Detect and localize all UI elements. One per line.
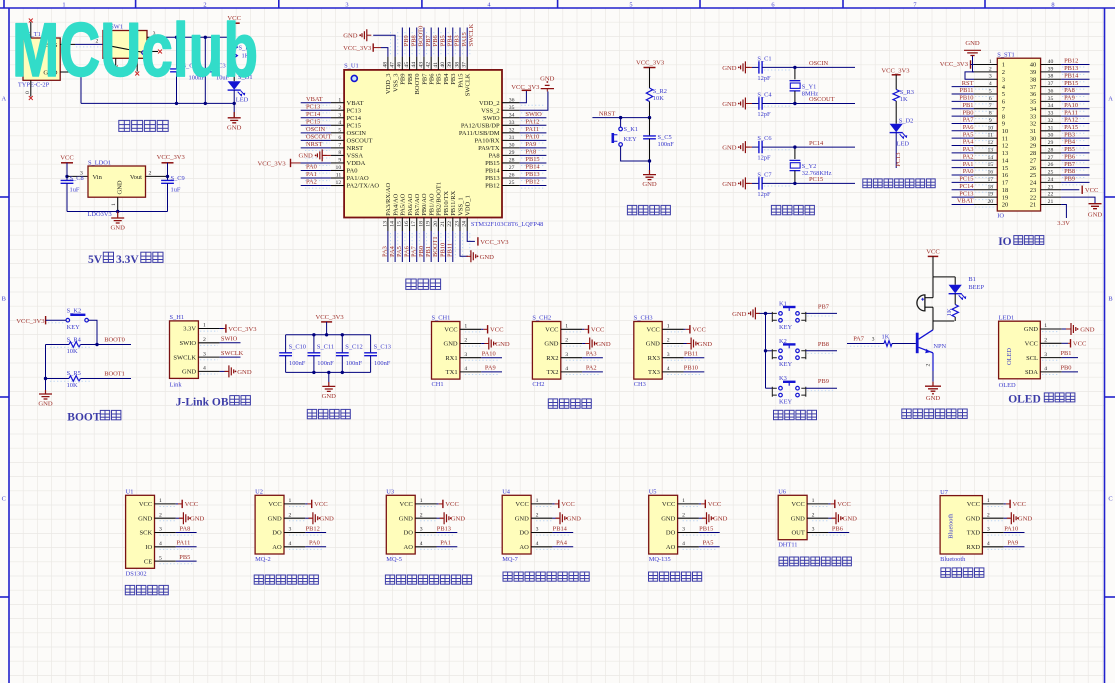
svg-text:26: 26 [1048, 162, 1054, 168]
svg-text:PB10/TX: PB10/TX [443, 191, 450, 216]
wire net PB5 to U1 pin 41 [437, 28, 439, 57]
svg-text:GND: GND [722, 145, 737, 152]
svg-text:Vout: Vout [130, 174, 142, 181]
junction LDO ground [116, 210, 119, 213]
pin 12 PA2/TX/AO of U1 [331, 185, 344, 187]
wire net PB14 from ST1 pin 38 [1061, 78, 1089, 80]
pin 3 of S_SW1 [147, 36, 163, 38]
svg-text:33: 33 [509, 120, 515, 126]
svg-text:37: 37 [462, 62, 468, 68]
svg-text:17: 17 [1002, 180, 1009, 187]
svg-text:PA1: PA1 [306, 171, 317, 178]
wire net PA7 to ST1 pin 9 [952, 122, 974, 124]
svg-text:3.3V: 3.3V [1057, 220, 1070, 227]
pin 1 VCC of U2 with power VCC [284, 503, 305, 505]
svg-text:21: 21 [1048, 199, 1054, 205]
svg-text:PB15: PB15 [699, 525, 713, 532]
svg-text:PA9: PA9 [525, 141, 536, 148]
svg-text:PC15: PC15 [306, 118, 320, 125]
pin 3 of U2 net PB12 [284, 532, 305, 534]
wire net PA5 to ST1 pin 11 [952, 137, 974, 139]
svg-text:PB9: PB9 [400, 74, 407, 85]
title reset 复位电路 [627, 205, 636, 214]
svg-text:PB0: PB0 [962, 109, 973, 116]
svg-text:2: 2 [812, 512, 815, 518]
svg-text:PA11: PA11 [525, 126, 539, 133]
svg-text:BOOT: BOOT [67, 411, 101, 423]
svg-text:15: 15 [1002, 165, 1009, 172]
wire net PB10 to ST1 pin 6 [952, 100, 974, 102]
svg-text:AO: AO [272, 544, 282, 551]
svg-text:43: 43 [418, 62, 424, 68]
svg-text:PB5: PB5 [436, 74, 443, 85]
svg-text:VCC: VCC [314, 501, 328, 508]
power VCC_3V3 at H1 pin1 [220, 328, 224, 330]
wire D1 cathode to GND [233, 90, 235, 112]
svg-text:100nF: 100nF [658, 141, 675, 148]
svg-text:8: 8 [989, 111, 992, 117]
svg-text:3: 3 [872, 336, 875, 342]
svg-text:A: A [1108, 96, 1113, 103]
svg-text:GND: GND [480, 254, 495, 261]
capacitor S_C10 100nF [285, 335, 287, 353]
pin 3 of S_CH2 net PA3 [561, 357, 582, 359]
svg-text:28: 28 [1048, 147, 1054, 153]
svg-text:VCC: VCC [591, 327, 605, 334]
svg-text:S_R5: S_R5 [67, 370, 81, 377]
pin 23 VSS_1 of U1 bottom [459, 218, 461, 232]
pin 1 3.3V of S_H1 [198, 328, 219, 330]
svg-text:18: 18 [418, 221, 424, 227]
svg-text:18: 18 [987, 184, 993, 190]
svg-text:PA3: PA3 [963, 146, 974, 153]
pin 28 of S_ST1 right [1041, 152, 1062, 154]
svg-text:VDD_3: VDD_3 [385, 74, 392, 95]
wire net PA3 to ST1 pin 13 [952, 152, 974, 154]
svg-text:OSCOUT: OSCOUT [347, 137, 373, 144]
wire net PB3 to U1 pin 39 [452, 28, 454, 57]
pin 39 PB3 of U1 top [452, 57, 454, 70]
svg-text:2: 2 [987, 512, 990, 518]
svg-text:GND: GND [722, 181, 737, 188]
svg-text:4: 4 [987, 541, 990, 547]
svg-text:VCC_3V3: VCC_3V3 [940, 61, 969, 68]
svg-text:U4: U4 [502, 489, 511, 496]
title benzene 苯检测模块 [649, 572, 658, 581]
pin 1 VCC of S_CH2 with power VCC [561, 328, 582, 330]
svg-text:47: 47 [390, 62, 396, 68]
wire net PB10 from U1 pin 21 [445, 231, 447, 262]
svg-text:40: 40 [1048, 59, 1054, 65]
title bluetooth 蓝牙模块 [941, 568, 950, 577]
wire net BOOT0 to U1 pin 44 [416, 28, 418, 57]
svg-text:Vin: Vin [93, 174, 103, 181]
pin 3 PC14 of U1 [331, 117, 344, 119]
connector S_T1 TYPE-C-2P [23, 38, 60, 80]
svg-text:6: 6 [989, 96, 992, 102]
wire rail to K3 [766, 387, 773, 389]
capacitor S_C9 1uF [167, 176, 169, 180]
pin 43 PB7 of U1 top [423, 57, 425, 70]
svg-text:PA12: PA12 [525, 118, 539, 125]
pin 9 of S_ST1 [974, 122, 997, 124]
pin 23 of S_ST1 right [1041, 189, 1062, 191]
svg-text:GND: GND [237, 369, 252, 376]
svg-text:20: 20 [987, 199, 993, 205]
svg-text:VCC: VCC [1073, 341, 1087, 348]
svg-text:4: 4 [536, 541, 539, 547]
pin 7 NRST of U1 [331, 147, 344, 149]
svg-text:PA10/RX: PA10/RX [475, 137, 500, 144]
svg-text:VCC_3V3: VCC_3V3 [228, 326, 257, 333]
svg-text:2: 2 [159, 512, 162, 518]
wire emitter [932, 353, 934, 371]
pin 15 of S_ST1 [974, 167, 997, 169]
svg-text:VCC: VCC [139, 501, 152, 508]
svg-text:Bluetooth: Bluetooth [948, 513, 955, 539]
wire net NRST to U1 pin 7 [301, 147, 331, 149]
svg-text:8: 8 [1002, 113, 1005, 120]
svg-text:RX1: RX1 [445, 355, 457, 362]
LED B1 BEEP [954, 277, 956, 285]
wire net PA7 from U1 pin 17 [416, 231, 418, 262]
pin 2 GND of U6 with ground [807, 517, 828, 519]
wire net PA12 from ST1 pin 32 [1061, 122, 1089, 124]
svg-text:PB7: PB7 [1064, 161, 1076, 168]
svg-text:S_U1: S_U1 [344, 63, 359, 70]
svg-text:PA5: PA5 [963, 131, 974, 138]
svg-text:GND: GND [713, 516, 728, 523]
svg-text:GND: GND [926, 395, 941, 402]
pin 2 GND of U1 with ground [155, 517, 176, 519]
wire net PA4 from U1 pin 14 [394, 231, 396, 262]
svg-text:100nF: 100nF [317, 360, 334, 367]
svg-text:39: 39 [447, 62, 453, 68]
svg-text:S_C7: S_C7 [757, 172, 772, 179]
svg-text:PC13: PC13 [347, 107, 361, 114]
svg-text:PC14: PC14 [809, 140, 824, 147]
svg-text:22: 22 [1030, 194, 1037, 201]
svg-text:19: 19 [1002, 194, 1009, 201]
svg-text:KEY: KEY [624, 136, 638, 143]
junction OSCIN at Y1 [793, 66, 796, 69]
svg-text:VBAT: VBAT [347, 100, 364, 107]
svg-text:PB8: PB8 [407, 74, 414, 85]
pin 33 PA12/USB/DP of U1 [502, 124, 520, 126]
svg-text:GND: GND [182, 369, 196, 376]
svg-text:TX1: TX1 [446, 369, 458, 376]
connector S_CH1 CH1 body [432, 322, 460, 380]
svg-text:GND: GND [843, 516, 858, 523]
pin 4 GND of S_H1 [198, 370, 219, 372]
pin 20 PB2/BOOT1 of U1 bottom [437, 218, 439, 232]
svg-text:TX3: TX3 [648, 369, 660, 376]
svg-text:2: 2 [1002, 69, 1005, 76]
wire net PB9 from ST1 pin 24 [1061, 181, 1089, 183]
svg-text:8: 8 [338, 150, 341, 156]
svg-text:12pF: 12pF [757, 75, 771, 82]
wire net PB15 from ST1 pin 37 [1061, 86, 1089, 88]
svg-text:32: 32 [1048, 118, 1054, 124]
wire filter top rail [286, 334, 371, 336]
pin 29 of S_ST1 right [1041, 145, 1062, 147]
svg-text:VSS_1: VSS_1 [457, 197, 464, 215]
capacitor S_C5 100nF [649, 118, 651, 136]
wire net PA3 from U1 pin 13 [387, 231, 389, 262]
svg-text:PA3: PA3 [586, 351, 597, 358]
pin 28 PB15 of U1 [502, 162, 520, 164]
svg-text:NRST: NRST [599, 110, 615, 117]
svg-text:32: 32 [509, 127, 515, 133]
svg-text:AO: AO [519, 544, 529, 551]
pin 2 GND of U4 with ground [531, 517, 552, 519]
display LED1 OLED body [999, 321, 1041, 379]
svg-text:2: 2 [203, 337, 206, 343]
svg-text:7: 7 [338, 142, 341, 148]
svg-text:GND: GND [646, 341, 660, 348]
svg-text:S_C10: S_C10 [289, 343, 306, 350]
svg-text:PA8: PA8 [525, 149, 536, 156]
svg-text:S_D2: S_D2 [899, 118, 914, 125]
svg-text:DO: DO [666, 530, 676, 537]
junction NRST at R2 [648, 116, 651, 119]
svg-text:VCC_3V3: VCC_3V3 [343, 45, 372, 52]
svg-text:GND: GND [698, 341, 713, 348]
pin 3 of U6 net PB6 [807, 532, 828, 534]
wire net PB4 from ST1 pin 29 [1061, 145, 1089, 147]
pin 5 OSCIN of U1 [331, 132, 344, 134]
svg-text:VCC: VCC [708, 501, 722, 508]
svg-text:GND: GND [722, 101, 737, 108]
svg-text:PA7: PA7 [853, 336, 865, 343]
svg-text:BEEP: BEEP [968, 284, 984, 291]
svg-text:PB10: PB10 [959, 95, 973, 102]
pin 10 of S_ST1 [974, 130, 997, 132]
wire net PA2 to ST1 pin 14 [952, 159, 974, 161]
svg-text:17: 17 [987, 177, 993, 183]
svg-text:PB14: PB14 [1064, 72, 1079, 79]
pin 3 of U7 net PA10 [982, 532, 1003, 534]
title crystal 晶振电路 [771, 205, 780, 214]
svg-text:OSCIN: OSCIN [347, 130, 367, 137]
pin 0 bottom of S_T1 [30, 80, 32, 96]
resistor S_R1 1K [233, 37, 235, 45]
junction GND rail at C3 [204, 102, 207, 105]
svg-text:GND: GND [299, 153, 314, 160]
svg-text:25: 25 [1048, 170, 1054, 176]
pin 2 of S_LDO1 [146, 175, 168, 177]
svg-text:KEY: KEY [779, 399, 793, 406]
wire VCC rail top [163, 36, 234, 38]
svg-text:35: 35 [1048, 96, 1054, 102]
svg-text:10: 10 [987, 125, 993, 131]
pin 16 PA6/AO of U1 bottom [409, 218, 411, 232]
svg-text:29: 29 [1030, 143, 1037, 150]
svg-text:GND: GND [399, 515, 413, 522]
svg-text:5V: 5V [88, 254, 103, 266]
svg-text:4: 4 [420, 541, 423, 547]
svg-text:PB7: PB7 [818, 303, 830, 310]
net 3.3V at ST1 pin21 [1061, 204, 1066, 218]
wire net PA11 from ST1 pin 33 [1061, 115, 1089, 117]
wire net PB3 from ST1 pin 30 [1061, 137, 1089, 139]
svg-text:2: 2 [989, 66, 992, 72]
svg-text:34: 34 [1048, 103, 1054, 109]
wire net PB12 from ST1 pin 40 [1061, 64, 1089, 66]
svg-text:26: 26 [1030, 165, 1037, 172]
svg-text:PA6: PA6 [963, 124, 974, 131]
svg-text:PB12: PB12 [485, 183, 499, 190]
svg-text:GND: GND [661, 515, 675, 522]
svg-text:PA10: PA10 [482, 351, 496, 358]
svg-text:PB11: PB11 [447, 243, 454, 257]
svg-text:GND: GND [722, 65, 737, 72]
pin 37 of S_ST1 right [1041, 86, 1062, 88]
svg-text:CE: CE [144, 558, 152, 565]
wire net PB6 to U1 pin 42 [430, 28, 432, 57]
wire net PC13 to ST1 pin 19 [952, 196, 974, 198]
wire key gnd rail [765, 313, 767, 388]
junction filter top [312, 333, 315, 336]
svg-text:28: 28 [509, 158, 515, 164]
pin 8 of S_ST1 [974, 115, 997, 117]
pin 21 of S_ST1 right [1041, 203, 1062, 205]
pin 1 VBAT of U1 [331, 102, 344, 104]
wire net PA8 from U1 pin 29 [520, 154, 547, 156]
svg-text:12: 12 [1002, 143, 1009, 150]
svg-text:OLED: OLED [999, 382, 1016, 389]
power VCC at LED1 pin2 [1062, 342, 1068, 344]
svg-text:24: 24 [1048, 177, 1054, 183]
svg-text:GND: GND [567, 516, 582, 523]
junction OSCOUT at Y1 [793, 102, 796, 105]
svg-text:OSCOUT: OSCOUT [306, 134, 332, 141]
svg-text:31: 31 [509, 135, 515, 141]
svg-text:PA1: PA1 [440, 540, 451, 547]
svg-text:S_K1: S_K1 [624, 126, 639, 133]
junction VCC rail at C3 [204, 36, 207, 39]
pin 1 VCC of U4 with power VCC [531, 503, 552, 505]
svg-text:10: 10 [1002, 128, 1009, 135]
svg-text:VCC_3V3: VCC_3V3 [881, 68, 910, 75]
svg-text:PA3/RX/AO: PA3/RX/AO [385, 183, 392, 216]
svg-text:2: 2 [289, 512, 292, 518]
svg-text:S_C1: S_C1 [757, 56, 771, 63]
svg-text:PA10: PA10 [1064, 102, 1078, 109]
svg-text:BOOT1: BOOT1 [432, 236, 439, 257]
svg-text:VCC: VCC [60, 154, 74, 161]
svg-text:27: 27 [1030, 157, 1037, 164]
svg-text:1: 1 [682, 498, 685, 504]
svg-text:14: 14 [987, 155, 993, 161]
svg-text:23: 23 [454, 221, 460, 227]
pin 2 GND of U3 with ground [415, 517, 436, 519]
svg-text:1uF: 1uF [70, 187, 80, 194]
svg-text:40: 40 [440, 62, 446, 68]
svg-text:36: 36 [509, 97, 515, 103]
wire net PA0 to U1 pin 10 [301, 169, 331, 171]
svg-text:PA2: PA2 [306, 179, 317, 186]
wire net PB8 to U1 pin 45 [409, 28, 411, 57]
svg-text:PC14: PC14 [959, 183, 974, 190]
svg-text:PB13: PB13 [437, 525, 451, 532]
wire net BOOT1 from U1 pin 20 [437, 231, 439, 262]
svg-text:21: 21 [440, 221, 446, 227]
svg-text:LED1: LED1 [999, 314, 1015, 321]
wire net PB4 to U1 pin 40 [445, 28, 447, 57]
svg-text:S_CH3: S_CH3 [634, 315, 653, 322]
svg-text:S_CH1: S_CH1 [432, 315, 451, 322]
pin 2 of S_T1 [60, 71, 75, 73]
svg-text:PB12: PB12 [525, 179, 539, 186]
title main chip 主芯片 [406, 279, 416, 289]
svg-text:11: 11 [336, 173, 342, 179]
svg-text:PA8: PA8 [180, 525, 191, 532]
pin 1 VCC of S_CH3 with power VCC [662, 328, 683, 330]
svg-text:VDDA: VDDA [347, 160, 366, 167]
svg-text:VCC: VCC [490, 327, 504, 334]
svg-text:35: 35 [509, 105, 515, 111]
wire net PC13 to U1 pin 2 [301, 109, 331, 111]
svg-text:PB14: PB14 [525, 164, 540, 171]
pin 5 of S_ST1 [974, 93, 997, 95]
junction PC15 at Y2 [793, 182, 796, 185]
svg-text:PB10: PB10 [684, 365, 698, 372]
svg-text:2: 2 [338, 105, 341, 111]
svg-text:PA0: PA0 [306, 164, 317, 171]
pin 2 GND of U7 with ground [982, 517, 1003, 519]
junction reset gnd [648, 159, 651, 162]
junction filter gnd [327, 371, 330, 374]
svg-text:C: C [1108, 496, 1112, 503]
pin 17 of S_ST1 [974, 181, 997, 183]
wire net PB11 from U1 pin 22 [452, 231, 454, 262]
svg-text:14: 14 [1002, 157, 1009, 164]
svg-text:PA5/AO: PA5/AO [400, 193, 407, 215]
pin 22 of S_ST1 right [1041, 196, 1062, 198]
wire net RST to ST1 pin 4 [952, 86, 974, 88]
svg-text:VDD_2: VDD_2 [479, 100, 500, 107]
svg-text:4: 4 [338, 120, 341, 126]
svg-text:VCC: VCC [515, 501, 528, 508]
svg-text:23: 23 [1030, 187, 1037, 194]
pin 33 of S_ST1 right [1041, 115, 1062, 117]
svg-text:2: 2 [682, 512, 685, 518]
pin 15 PA5/AO of U1 bottom [401, 218, 403, 232]
svg-text:PC15: PC15 [959, 176, 973, 183]
title keys 按键电路 [774, 410, 783, 419]
wire net PB15 from U1 pin 28 [520, 162, 547, 164]
wire net PA1 to ST1 pin 15 [952, 167, 974, 169]
title indicator 程序运行指示灯 [863, 179, 872, 188]
svg-text:1: 1 [1002, 62, 1005, 69]
svg-text:VCC: VCC [400, 501, 413, 508]
svg-text:VCC: VCC [545, 327, 558, 334]
wire net PB7 to U1 pin 43 [423, 28, 425, 57]
pin 31 PA10/RX of U1 [502, 139, 520, 141]
svg-text:35: 35 [1030, 99, 1037, 106]
ground at U1 VSS_1 [460, 231, 468, 256]
svg-text:2: 2 [536, 512, 539, 518]
wire net PC14 to U1 pin 3 [301, 117, 331, 119]
wire alarm top rail [933, 276, 955, 278]
svg-text:PA7: PA7 [963, 117, 975, 124]
LED S_D2 [890, 124, 903, 133]
svg-text:MQ-7: MQ-7 [502, 556, 518, 563]
svg-text:GND: GND [320, 516, 335, 523]
svg-text:PA12: PA12 [1064, 117, 1078, 124]
pin 12 of S_ST1 [974, 145, 997, 147]
